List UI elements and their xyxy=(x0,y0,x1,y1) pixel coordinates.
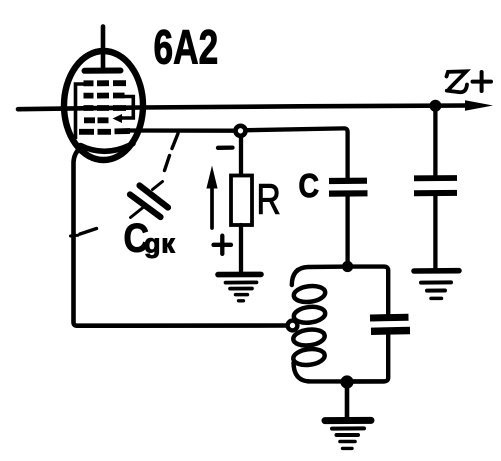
Cdk capacitor plates xyxy=(140,186,169,208)
grid row 5 xyxy=(79,128,130,135)
coil top connection xyxy=(292,267,348,285)
node terminal ring xyxy=(236,126,246,136)
resistor lead bottom xyxy=(239,225,243,272)
wire: cathode down and across to coil tap xyxy=(74,147,288,326)
resistor lead top xyxy=(239,137,243,176)
wire: main supply rail xyxy=(18,106,467,110)
coil turn 2 xyxy=(293,305,326,324)
junction dot tank bottom xyxy=(340,375,353,388)
plus sign xyxy=(214,236,232,254)
coil turn 3 xyxy=(292,328,325,347)
grid row 3 xyxy=(84,105,127,111)
arrowhead of supply rail xyxy=(465,100,493,110)
ground (below filter capacitor) xyxy=(414,268,459,274)
resistor R body xyxy=(231,176,252,226)
internal bracket right with arrow to grid 4 xyxy=(121,97,133,119)
wire: grid to node xyxy=(128,128,234,132)
filter capacitor plates xyxy=(414,175,457,181)
svg-text:R: R xyxy=(257,176,281,224)
svg-text:gк: gк xyxy=(144,229,176,259)
coil turn 1 xyxy=(293,284,326,303)
coil bottom connection xyxy=(294,363,310,381)
wire tank top right xyxy=(348,267,389,314)
filter capacitor lead bottom xyxy=(433,196,437,268)
trimmer lead bottom xyxy=(352,335,388,382)
wire to tank ground xyxy=(345,385,350,417)
svg-text:C: C xyxy=(299,167,319,205)
tube 6A2 envelope xyxy=(64,51,143,160)
grid row 4 xyxy=(84,117,109,123)
current arrow xyxy=(210,182,214,228)
coil turn 4 xyxy=(292,347,325,366)
ground (below tank) xyxy=(325,417,371,424)
trimmer capacitor plates xyxy=(370,314,409,322)
junction dot tank top xyxy=(342,261,353,272)
wire tank bottom xyxy=(308,379,384,383)
cathode arc xyxy=(81,144,134,152)
capacitor C plates xyxy=(329,178,367,185)
grid row 1 xyxy=(84,80,127,86)
anode plate xyxy=(85,68,121,74)
Cdk dashed coupling path xyxy=(172,134,178,149)
svg-text:6A2: 6A2 xyxy=(154,20,219,74)
filter capacitor lead top xyxy=(433,108,437,175)
internal bracket left xyxy=(76,84,91,139)
ground (below resistor) xyxy=(218,272,261,278)
grid row 2 xyxy=(84,93,125,99)
wire: node to capacitor C branch xyxy=(247,128,348,178)
anode lead xyxy=(101,27,106,71)
label Z,+ xyxy=(447,71,492,92)
junction dot supply rail xyxy=(429,100,441,112)
minus sign xyxy=(218,145,233,149)
capacitor C lead bottom xyxy=(345,197,349,264)
coil tap ring xyxy=(288,321,298,331)
